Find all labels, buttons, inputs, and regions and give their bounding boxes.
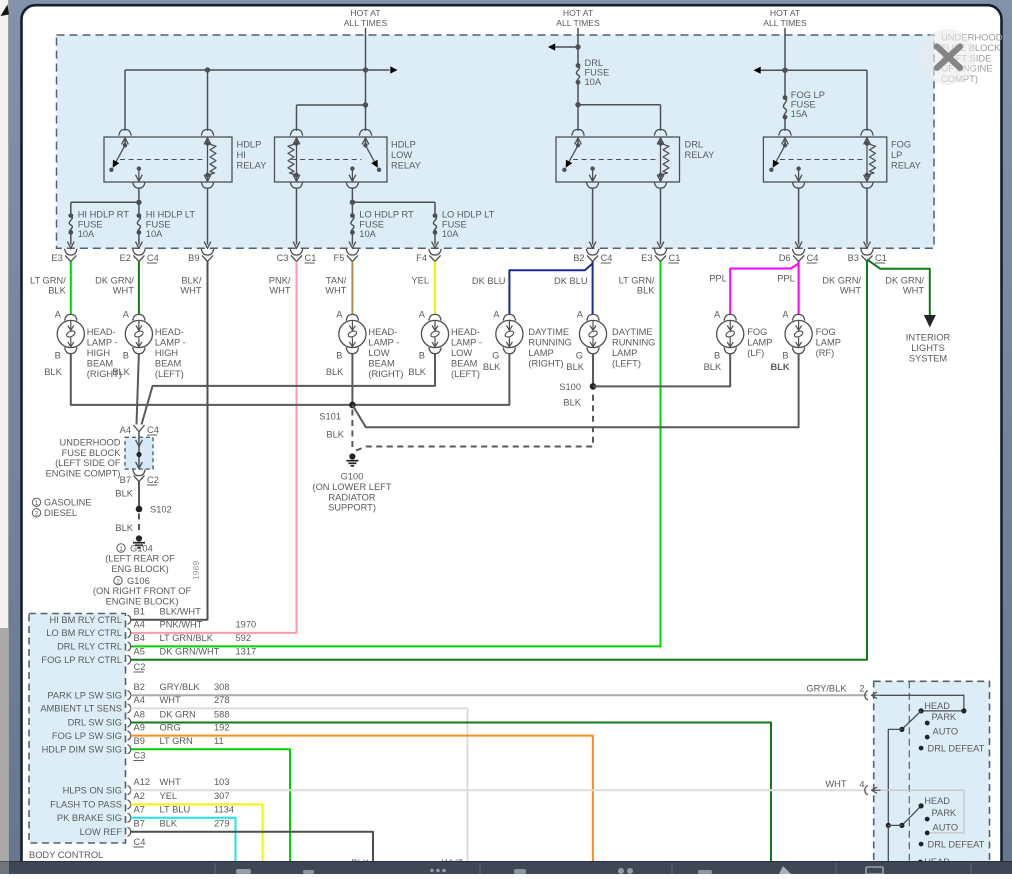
svg-text:DK GRN/: DK GRN/ [95, 276, 134, 286]
svg-text:LIGHTS: LIGHTS [911, 343, 945, 353]
headlamp switch box [874, 681, 990, 873]
svg-text:C4: C4 [807, 253, 819, 263]
connector B2/C4 at fuse block boundary [586, 249, 598, 255]
svg-text:B: B [336, 351, 342, 361]
BCM pin A7 PK BRAKE SIG [128, 813, 131, 822]
svg-text:WHT: WHT [840, 286, 861, 296]
svg-text:LT GRN/BLK: LT GRN/BLK [160, 633, 214, 643]
svg-text:ALL TIMES: ALL TIMES [344, 18, 388, 28]
relay DRL box [556, 137, 680, 182]
svg-text:B: B [714, 351, 720, 361]
headlamp switch 1 positions [925, 721, 930, 726]
svg-text:ENGINE BLOCK): ENGINE BLOCK) [106, 597, 179, 607]
wire BLK ground bus lower S101 [71, 353, 510, 405]
relay DRL actuation dashed link [573, 159, 657, 161]
relay DRL switch contacts [577, 140, 579, 146]
wire BLK dashed S102 to G104 [138, 514, 140, 534]
wire GRY/BLK from BCM pin B2 [131, 694, 868, 696]
lamp fog lamp RF [792, 314, 804, 320]
arrow feed continues right [390, 66, 397, 73]
wire LT GRN/BLK to high beam right [70, 262, 72, 315]
svg-text:WHT: WHT [160, 695, 181, 705]
wire BLK dashed S101 to G100 ground [351, 410, 353, 452]
headlamp switch 2 positions [925, 817, 930, 822]
svg-text:BLK: BLK [44, 367, 62, 377]
wire YEL from BCM pin A2 [131, 804, 263, 861]
svg-text:S101: S101 [319, 412, 341, 422]
svg-text:1317: 1317 [236, 647, 257, 657]
svg-text:HI BM RLY CTRL: HI BM RLY CTRL [50, 615, 123, 625]
svg-text:PK BRAKE SIG: PK BRAKE SIG [57, 813, 122, 823]
taskbar icon hints [236, 869, 251, 874]
connector B9 at fuse block boundary [201, 249, 213, 255]
svg-text:BEAM: BEAM [451, 359, 477, 369]
svg-text:10A: 10A [585, 77, 602, 87]
svg-text:DRL SW SIG: DRL SW SIG [68, 718, 122, 728]
svg-text:C2: C2 [147, 475, 159, 485]
svg-text:2: 2 [859, 684, 864, 694]
relay HDLP HI actuation dashed link [120, 159, 204, 161]
svg-text:(RIGHT): (RIGHT) [368, 369, 403, 379]
svg-text:15A: 15A [791, 109, 808, 119]
BCM pin A4 AMBIENT LT SENS [128, 704, 131, 713]
svg-text:FOG: FOG [747, 327, 767, 337]
relay HDLP LOW switch contacts [365, 140, 367, 146]
svg-text:B2: B2 [573, 253, 584, 263]
svg-text:HEAD-: HEAD- [87, 327, 116, 337]
svg-text:G100: G100 [341, 472, 364, 482]
svg-text:FOG LP: FOG LP [791, 90, 825, 100]
svg-text:B7: B7 [134, 819, 145, 829]
connector C3/C1 at fuse block boundary [290, 249, 302, 255]
connector F5 at fuse block boundary [346, 249, 358, 255]
svg-text:2: 2 [35, 511, 39, 518]
svg-text:RELAY: RELAY [391, 160, 421, 170]
svg-text:BEAM: BEAM [155, 359, 181, 369]
label G104 G106 notes [117, 544, 125, 552]
svg-text:HIGH: HIGH [155, 348, 178, 358]
svg-text:C3: C3 [277, 253, 289, 263]
relay FOG LP coil [779, 129, 791, 135]
svg-text:ENGINE COMPT): ENGINE COMPT) [46, 468, 121, 478]
svg-text:BLK: BLK [48, 286, 66, 296]
relay HDLP LOW coil [359, 129, 371, 135]
relay FOG LP box [763, 137, 886, 182]
svg-text:1: 1 [119, 546, 123, 553]
svg-text:BLK: BLK [112, 367, 130, 377]
svg-text:DK GRN/: DK GRN/ [822, 276, 861, 286]
svg-text:1970: 1970 [236, 620, 257, 630]
svg-text:LAMP -: LAMP - [368, 338, 399, 348]
wire DK GRN/WHT from FOG LP relay coil down to BCM [131, 262, 868, 660]
BCM pin A4 LO BM RLY CTRL [128, 628, 131, 637]
svg-text:B2: B2 [134, 682, 145, 692]
wire YEL to low beam left [434, 262, 436, 315]
svg-text:YEL: YEL [160, 791, 178, 801]
svg-text:FOG: FOG [816, 327, 836, 337]
svg-text:LAMP: LAMP [612, 348, 637, 358]
wire BLK low beam right drop to S101 [351, 353, 353, 405]
svg-text:FOG LP SW SIG: FOG LP SW SIG [52, 731, 122, 741]
svg-text:FUSE: FUSE [791, 100, 816, 110]
svg-text:DK GRN/WHT: DK GRN/WHT [160, 647, 220, 657]
svg-text:SUPPORT): SUPPORT) [328, 503, 376, 513]
svg-text:LO HDLP RT: LO HDLP RT [359, 210, 414, 220]
wire DK GRN/WHT to high beam left [138, 262, 140, 315]
white-out for fuse gaps [138, 217, 141, 231]
BCM pin B2 PARK LP SW SIG [128, 691, 131, 700]
headlamp switch 1 wiring [881, 695, 964, 711]
lamp headlamp high beam right [65, 314, 77, 320]
svg-text:B7: B7 [120, 475, 131, 485]
svg-text:103: 103 [214, 777, 230, 787]
close button [920, 29, 976, 85]
svg-text:DAYTIME: DAYTIME [528, 327, 569, 337]
svg-text:A: A [577, 310, 584, 320]
wire WHT from BCM pin A4 [131, 708, 468, 861]
lamp daytime running lamp right [503, 314, 515, 320]
connector E3/C1 at fuse block boundary [654, 249, 666, 255]
wire LT BLU from BCM pin A7 [131, 818, 236, 862]
svg-text:E3: E3 [51, 253, 62, 263]
svg-text:278: 278 [214, 695, 230, 705]
svg-text:B: B [419, 351, 425, 361]
svg-text:10A: 10A [78, 229, 95, 239]
svg-text:D6: D6 [779, 253, 791, 263]
svg-text:E3: E3 [641, 253, 652, 263]
svg-text:B: B [55, 351, 61, 361]
svg-text:S100: S100 [559, 382, 581, 392]
ground G104/G106 [133, 535, 145, 547]
svg-text:HDLP DIM SW SIG: HDLP DIM SW SIG [42, 744, 122, 754]
wire battery feed to FOG LP relay [784, 28, 786, 98]
svg-text:B9: B9 [134, 736, 145, 746]
svg-text:HEAD-: HEAD- [451, 327, 480, 337]
svg-text:RUNNING: RUNNING [612, 338, 655, 348]
wire WHT from BCM pin A12 [131, 789, 868, 791]
svg-text:AUTO: AUTO [933, 727, 959, 737]
svg-text:LAMP -: LAMP - [155, 338, 186, 348]
svg-text:G106: G106 [127, 576, 150, 586]
svg-text:BLK/: BLK/ [181, 276, 202, 286]
body control module BCM box [29, 614, 126, 844]
svg-text:(LEFT): (LEFT) [155, 369, 184, 379]
taskbar [0, 862, 1012, 875]
svg-text:PPL: PPL [777, 274, 795, 284]
svg-text:C1: C1 [305, 253, 317, 263]
svg-text:ALL TIMES: ALL TIMES [556, 18, 600, 28]
svg-text:HDLP: HDLP [391, 140, 416, 150]
wire BLK from BCM pin B7 [131, 832, 374, 862]
svg-text:10A: 10A [359, 229, 376, 239]
svg-text:FLASH TO PASS: FLASH TO PASS [50, 800, 122, 810]
svg-text:ALL TIMES: ALL TIMES [763, 18, 807, 28]
svg-text:RUNNING: RUNNING [528, 338, 571, 348]
svg-text:A: A [419, 310, 426, 320]
wire BLK fuse block to S102 [138, 482, 140, 510]
relay FOG LP switch contacts [784, 140, 786, 146]
splice S101 [349, 402, 356, 409]
fuse HI HDLP LT FUSE 10A [137, 216, 140, 233]
relay HDLP HI output connectors bottom [136, 175, 143, 182]
svg-text:HDLP: HDLP [237, 140, 262, 150]
svg-text:FUSE: FUSE [442, 219, 467, 229]
svg-text:B: B [123, 351, 129, 361]
svg-text:A4: A4 [120, 425, 131, 435]
svg-text:A7: A7 [134, 805, 145, 815]
svg-text:4: 4 [859, 779, 864, 789]
svg-text:BLK: BLK [566, 362, 584, 372]
svg-text:LAMP: LAMP [528, 348, 553, 358]
svg-text:C4: C4 [147, 253, 159, 263]
svg-text:HOT AT: HOT AT [350, 8, 381, 18]
svg-text:PNK/: PNK/ [269, 276, 291, 286]
svg-text:F4: F4 [416, 253, 427, 263]
relay HDLP LOW actuation dashed link [292, 159, 362, 161]
splice S100 [590, 383, 597, 390]
legend gasoline diesel [32, 498, 40, 506]
wire BLK daytime left drop to S100 [592, 353, 594, 386]
BCM pin A2 FLASH TO PASS [128, 800, 131, 809]
fuse LO HDLP RT FUSE 10A [351, 216, 354, 233]
svg-text:PARK: PARK [932, 712, 957, 722]
bottom left corner block [0, 862, 9, 875]
relay DRL output connectors bottom [589, 175, 596, 182]
svg-text:C3: C3 [134, 751, 146, 761]
svg-text:WHT: WHT [903, 286, 924, 296]
svg-text:B1: B1 [134, 607, 145, 617]
svg-text:588: 588 [214, 709, 230, 719]
svg-text:HEAD-: HEAD- [368, 327, 397, 337]
svg-text:G104: G104 [130, 543, 153, 553]
fuse HI HDLP RT FUSE 10A [69, 216, 72, 233]
lamp headlamp high beam left [133, 314, 145, 320]
mouse cursor arrow top left [1, 5, 10, 17]
svg-text:BLK: BLK [115, 523, 133, 533]
svg-text:DRL: DRL [585, 58, 604, 68]
headlamp switch 1 blade [902, 711, 921, 730]
svg-text:A2: A2 [134, 791, 145, 801]
svg-text:WHT: WHT [113, 286, 134, 296]
svg-text:BLK: BLK [563, 398, 581, 408]
svg-text:HI HDLP RT: HI HDLP RT [78, 210, 130, 220]
BCM pin A9 FOG LP SW SIG [128, 731, 131, 740]
svg-text:FUSE: FUSE [585, 68, 610, 78]
ground G100 [346, 453, 358, 465]
svg-text:AUTO: AUTO [933, 822, 959, 832]
svg-text:FOG: FOG [891, 140, 911, 150]
svg-text:BLK: BLK [408, 367, 426, 377]
relay FOG LP actuation dashed link [780, 159, 863, 161]
svg-text:592: 592 [236, 633, 252, 643]
connector A4/C4 into underhood fuse block [134, 425, 145, 432]
arrow to interior lights system [924, 315, 936, 328]
BCM pin B4 DRL RLY CTRL [128, 642, 131, 651]
relay FOG LP output connectors bottom [795, 175, 802, 182]
relay HDLP HI coil [119, 129, 131, 135]
BCM pin A8 DRL SW SIG [128, 718, 131, 727]
underhood fuse block (left side of engine compt) box [125, 437, 153, 469]
wire BLK/WHT from HDLP HI relay coil down to BCM [131, 262, 208, 620]
fuse FOG LP FUSE 15A [783, 98, 786, 118]
svg-text:GRY/BLK: GRY/BLK [160, 682, 201, 692]
svg-text:192: 192 [214, 722, 230, 732]
svg-text:LOW: LOW [391, 150, 412, 160]
svg-text:B4: B4 [134, 633, 145, 643]
svg-text:LOW: LOW [368, 348, 389, 358]
svg-text:C2: C2 [134, 662, 146, 672]
taskbar separators [214, 863, 216, 874]
svg-text:WHT: WHT [825, 779, 846, 789]
svg-text:HIGH: HIGH [87, 348, 110, 358]
svg-text:SYSTEM: SYSTEM [909, 353, 947, 363]
svg-text:BLK/WHT: BLK/WHT [160, 607, 202, 617]
svg-text:WHT: WHT [180, 286, 201, 296]
svg-text:LAMP -: LAMP - [87, 338, 118, 348]
svg-text:LOW REF: LOW REF [80, 827, 123, 837]
wire PNK/WHT from HDLP LOW relay coil down to BCM [131, 262, 297, 633]
svg-text:A: A [782, 310, 789, 320]
svg-text:LT GRN/: LT GRN/ [30, 276, 66, 286]
svg-text:C1: C1 [875, 253, 887, 263]
lamp daytime running lamp left [587, 314, 599, 320]
svg-text:DRL RLY CTRL: DRL RLY CTRL [57, 642, 122, 652]
svg-text:A: A [714, 310, 721, 320]
svg-text:1134: 1134 [214, 805, 234, 815]
svg-text:C4: C4 [601, 253, 613, 263]
svg-text:DRL DEFEAT: DRL DEFEAT [928, 744, 985, 754]
svg-text:FUSE: FUSE [78, 219, 103, 229]
svg-text:WHT: WHT [269, 286, 290, 296]
lamp headlamp low beam right [346, 314, 358, 320]
svg-text:AMBIENT LT SENS: AMBIENT LT SENS [40, 704, 122, 714]
left scrollbar thumb [0, 628, 9, 874]
svg-text:YEL: YEL [411, 276, 429, 286]
svg-text:B9: B9 [188, 253, 199, 263]
connector D6/C4 at fuse block boundary [792, 249, 804, 255]
svg-text:BLK: BLK [637, 286, 655, 296]
wire TAN/WHT to low beam right [351, 262, 353, 315]
svg-text:(LEFT REAR OF: (LEFT REAR OF [105, 554, 175, 564]
svg-text:B: B [782, 351, 788, 361]
svg-text:DK BLU: DK BLU [554, 276, 588, 286]
svg-text:A: A [336, 310, 343, 320]
svg-text:A5: A5 [134, 647, 145, 657]
underhood fuse block boundary box [57, 35, 935, 248]
svg-text:F5: F5 [334, 253, 345, 263]
svg-text:A9: A9 [134, 722, 145, 732]
svg-text:(RF): (RF) [816, 348, 835, 358]
svg-text:308: 308 [214, 682, 230, 692]
svg-text:E2: E2 [120, 253, 131, 263]
relay DRL coil [572, 129, 584, 135]
svg-text:C4: C4 [134, 837, 146, 847]
svg-text:DK GRN: DK GRN [160, 709, 196, 719]
svg-text:(LF): (LF) [747, 348, 764, 358]
svg-text:RELAY: RELAY [237, 160, 267, 170]
svg-text:307: 307 [214, 791, 230, 801]
svg-text:BLK: BLK [483, 362, 501, 372]
wire BLK S100 to fog lamp LF [593, 353, 730, 386]
svg-text:LAMP -: LAMP - [451, 338, 482, 348]
wire DK GRN from BCM pin A8 [131, 723, 772, 862]
svg-text:LO BM RLY CTRL: LO BM RLY CTRL [46, 628, 122, 638]
junction dots on HDLP feed [205, 67, 210, 72]
svg-text:HOT AT: HOT AT [770, 8, 801, 18]
wire LT GRN from BCM pin B9 [131, 749, 291, 861]
svg-text:10A: 10A [442, 229, 459, 239]
svg-text:DRL: DRL [685, 140, 704, 150]
svg-text:G: G [492, 351, 499, 361]
wire DK GRN/WHT branch to interior lights system [867, 260, 930, 317]
wire LO HDLP fuse feed split [352, 201, 435, 203]
svg-text:A: A [493, 310, 500, 320]
svg-text:(RIGHT): (RIGHT) [528, 359, 563, 369]
wire battery feed to DRL relay [577, 28, 579, 66]
svg-text:HEAD: HEAD [924, 701, 950, 711]
svg-text:A4: A4 [134, 695, 145, 705]
wire LT GRN/BLK from DRL relay coil down to BCM [131, 262, 661, 647]
wire BLK ground bus upper (low beam left to fuse block) [142, 353, 436, 424]
splice S102 [136, 506, 143, 513]
svg-text:BEAM: BEAM [368, 359, 394, 369]
svg-text:(ON LOWER LEFT: (ON LOWER LEFT [312, 482, 391, 492]
svg-text:GASOLINE: GASOLINE [44, 498, 92, 508]
svg-text:HEAD-: HEAD- [155, 327, 184, 337]
svg-text:HOT AT: HOT AT [563, 8, 594, 18]
svg-text:10A: 10A [146, 229, 163, 239]
svg-text:A8: A8 [134, 709, 145, 719]
svg-text:WHT: WHT [325, 286, 346, 296]
lamp headlamp low beam left [429, 314, 441, 320]
svg-text:PARK LP SW SIG: PARK LP SW SIG [47, 691, 122, 701]
svg-text:1989: 1989 [191, 561, 201, 580]
svg-text:(LEFT SIDE OF: (LEFT SIDE OF [55, 458, 121, 468]
wire BLK high beam left drop to underhood fuse block [137, 353, 139, 424]
svg-text:INTERIOR: INTERIOR [906, 333, 951, 343]
wire BLK S101 to fog lamp RF [352, 353, 798, 427]
svg-text:WHT: WHT [160, 777, 181, 787]
svg-text:(LEFT): (LEFT) [612, 359, 641, 369]
svg-text:A12: A12 [134, 777, 151, 787]
svg-text:BLK: BLK [326, 367, 344, 377]
svg-text:LO HDLP LT: LO HDLP LT [442, 210, 495, 220]
svg-text:BLK: BLK [160, 819, 178, 829]
BCM pin A5 FOG LP RLY CTRL [128, 655, 131, 664]
relay HDLP LOW output connectors bottom [349, 175, 356, 182]
svg-text:A4: A4 [134, 620, 145, 630]
svg-text:RELAY: RELAY [685, 150, 715, 160]
svg-text:HEAD: HEAD [924, 796, 950, 806]
svg-text:ENG BLOCK): ENG BLOCK) [111, 564, 168, 574]
svg-text:2: 2 [116, 578, 120, 585]
svg-text:FOG LP RLY CTRL: FOG LP RLY CTRL [41, 655, 122, 665]
svg-text:ORG: ORG [160, 722, 181, 732]
svg-text:LOW: LOW [451, 348, 472, 358]
svg-text:B3: B3 [848, 253, 859, 263]
svg-text:BLK: BLK [326, 430, 344, 440]
svg-text:GRY/BLK: GRY/BLK [806, 683, 847, 693]
BCM pin B9 HDLP DIM SW SIG [128, 745, 131, 754]
svg-text:11: 11 [214, 736, 224, 746]
svg-text:DK BLU: DK BLU [472, 276, 506, 286]
connector E2/C4 at fuse block boundary [133, 249, 145, 255]
svg-text:HI: HI [237, 150, 246, 160]
svg-text:1: 1 [35, 500, 39, 507]
lamp fog lamp LF [724, 314, 736, 320]
svg-text:279: 279 [214, 819, 230, 829]
svg-text:DRL DEFEAT: DRL DEFEAT [928, 840, 985, 850]
